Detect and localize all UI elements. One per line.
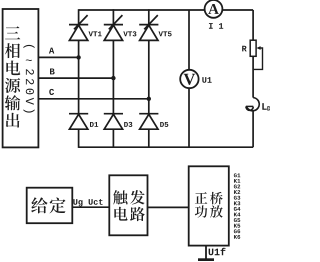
resistor R (rheostat) xyxy=(242,40,262,69)
three-phase source box xyxy=(3,9,39,147)
trigger circuit block 触发电路 xyxy=(109,175,147,235)
voltmeter U1 xyxy=(180,70,211,88)
pin labels G1-K6 xyxy=(234,173,241,239)
thyristor VT3 xyxy=(104,9,137,78)
thyristor VT5 xyxy=(139,9,171,99)
wire voltmeter branch xyxy=(188,10,190,147)
wire right rail upper xyxy=(252,10,254,98)
wire right rail lower xyxy=(252,111,254,148)
wire trigger to amp xyxy=(148,206,189,208)
wire Ug Uct xyxy=(72,199,109,207)
ammeter I1 xyxy=(205,0,224,29)
node A wire xyxy=(38,48,80,60)
diode D5 xyxy=(139,99,168,148)
diode D1 xyxy=(69,57,98,147)
setpoint block 给定 xyxy=(27,188,73,224)
thyristor VT1 xyxy=(69,9,102,57)
inductor Ld xyxy=(246,98,271,111)
bridge amp block 正桥功放 xyxy=(189,166,229,245)
wire top bus xyxy=(79,9,254,11)
U1f terminal xyxy=(198,246,225,261)
node C wire xyxy=(38,89,151,101)
diode D3 xyxy=(104,78,133,148)
node B wire xyxy=(38,68,115,80)
wire bottom bus xyxy=(79,146,254,148)
